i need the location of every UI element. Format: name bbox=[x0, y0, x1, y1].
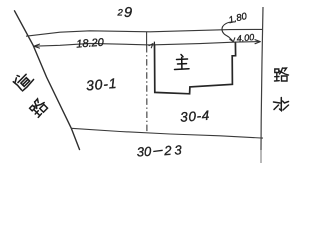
kanji 路 (road label second char, rotated) bbox=[29, 97, 49, 117]
kanji 水 (waterway label bottom char) bbox=[274, 98, 289, 111]
svg-text:18.20: 18.20 bbox=[76, 37, 105, 51]
lot division dash-dot line bbox=[146, 32, 148, 46]
building corner tick bbox=[153, 42, 155, 47]
kanji 主 (main building) bbox=[175, 55, 190, 70]
north/top boundary line bbox=[26, 29, 263, 36]
svg-text:9: 9 bbox=[124, 5, 132, 21]
road boundary line (diagonal) bbox=[15, 11, 80, 150]
svg-text:30-1: 30-1 bbox=[85, 75, 118, 94]
mid arrowhead near vertical 146 bbox=[149, 44, 153, 48]
waterway boundary line bbox=[261, 7, 263, 150]
kanji 路 (waterway label top char) bbox=[275, 68, 289, 81]
building outline (stepped) bbox=[155, 42, 236, 94]
right arrowhead of dimension line at waterway bbox=[255, 40, 260, 44]
svg-text:4.00: 4.00 bbox=[236, 32, 254, 44]
svg-text:30-4: 30-4 bbox=[180, 108, 211, 125]
dimension line 18.20 / building frontage line bbox=[34, 42, 261, 47]
leader arrow from 1.80 bbox=[222, 22, 236, 41]
svg-text:23: 23 bbox=[163, 142, 185, 158]
parcel label 30-23 bbox=[136, 142, 185, 159]
kanji 道 (road label, rotated) bbox=[12, 69, 34, 91]
left arrowhead of dimension line bbox=[34, 44, 40, 48]
southern parcel boundary line bbox=[71, 128, 263, 138]
svg-text:2: 2 bbox=[117, 8, 124, 19]
svg-text:30: 30 bbox=[136, 144, 152, 160]
svg-text:1.80: 1.80 bbox=[228, 11, 249, 26]
